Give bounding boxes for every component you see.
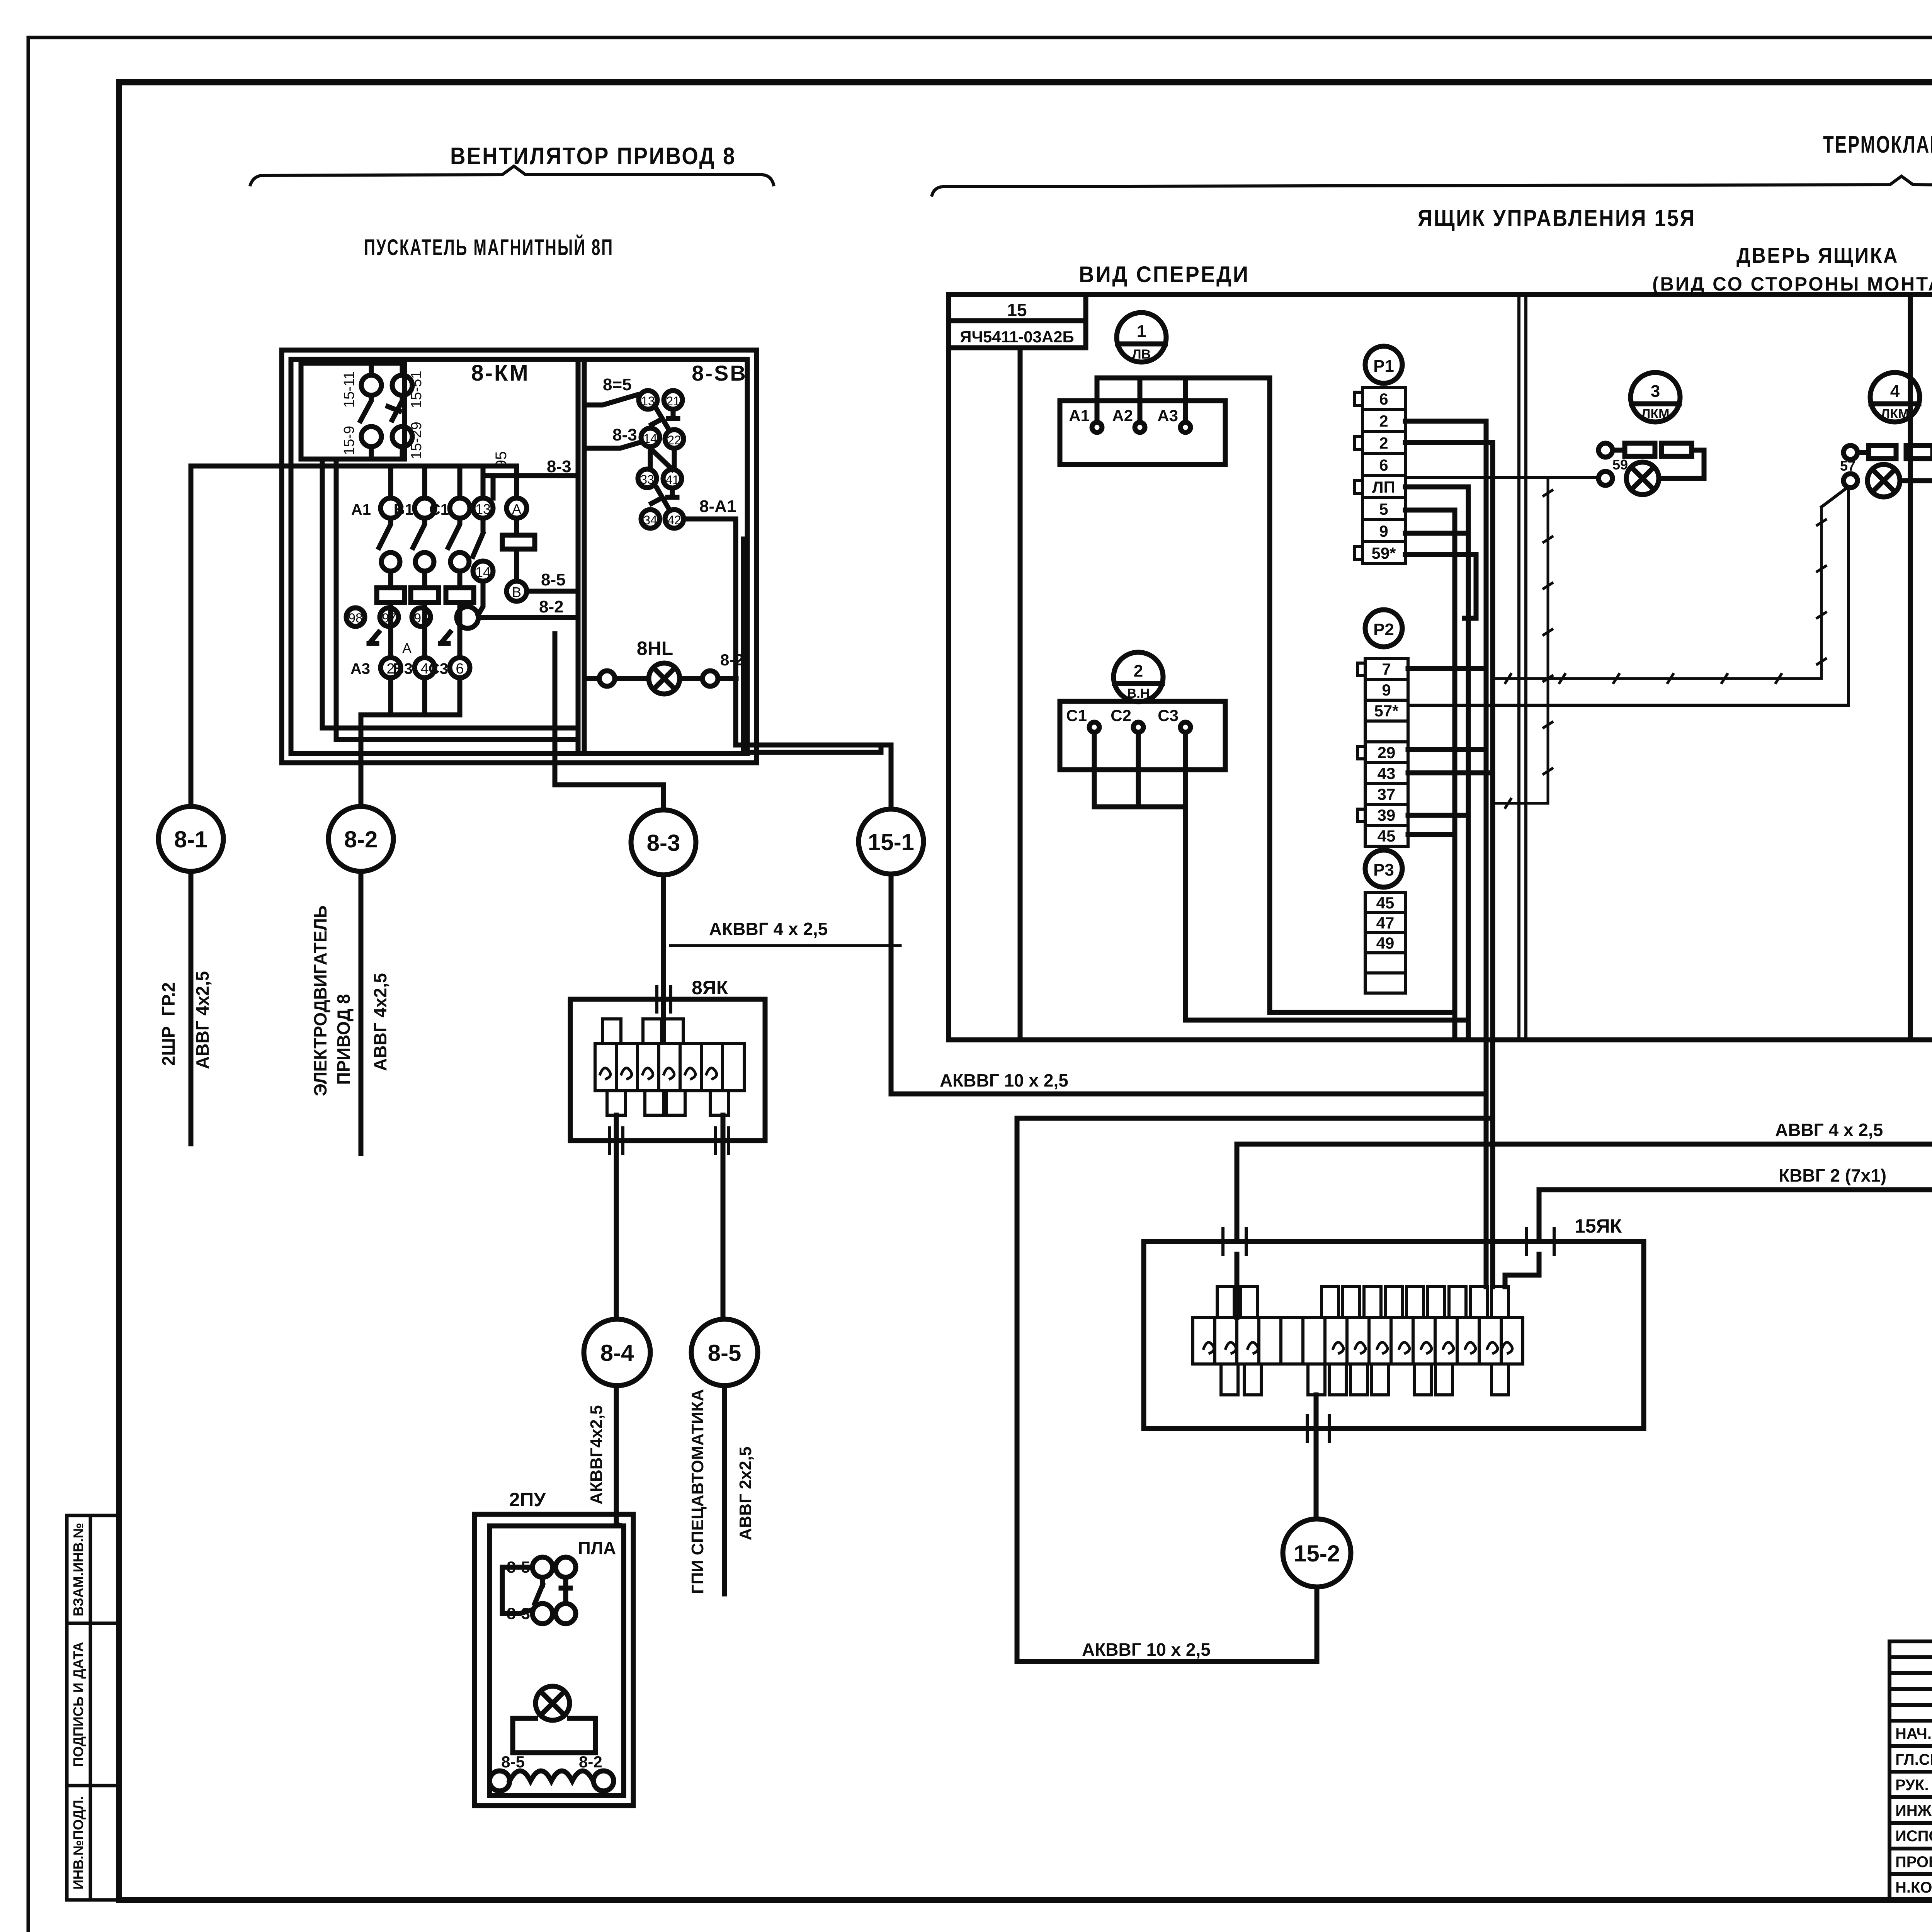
- svg-text:2: 2: [1379, 434, 1388, 452]
- wire 8-A1: [684, 519, 881, 752]
- svg-text:39: 39: [1378, 806, 1396, 824]
- svg-text:ЛП: ЛП: [1372, 478, 1395, 496]
- svg-text:(ВИД СО СТОРОНЫ МОНТАЖА): (ВИД СО СТОРОНЫ МОНТАЖА): [1652, 273, 1932, 295]
- aux small circles 98 97 95: [346, 608, 365, 626]
- terminal strip P3: [1365, 850, 1402, 887]
- door lamp 4/LKM symbol: [1870, 372, 1920, 422]
- svg-text:22: 22: [667, 433, 681, 447]
- wires below nodes 8-4 8-5: [616, 1386, 724, 1594]
- svg-text:49: 49: [1376, 934, 1395, 952]
- svg-text:2: 2: [1379, 412, 1388, 430]
- svg-text:ИНЖ.: ИНЖ.: [1895, 1802, 1932, 1819]
- svg-text:33: 33: [640, 473, 654, 486]
- junction circle and 8-2 wire: [457, 607, 478, 628]
- svg-text:А1: А1: [351, 501, 371, 518]
- svg-text:КВВГ 2 (7х1): КВВГ 2 (7х1): [1779, 1165, 1886, 1185]
- svg-text:3: 3: [1651, 382, 1660, 401]
- small hooks: [369, 632, 450, 643]
- node 15-2: [1283, 1519, 1351, 1587]
- svg-text:ПЛА: ПЛА: [578, 1538, 616, 1558]
- demount wire bottom run: [1493, 799, 1546, 808]
- wire 8-3 riser: [555, 634, 663, 999]
- lamp 4 assembly: [1844, 446, 1857, 459]
- svg-text:43: 43: [1378, 764, 1396, 782]
- coil 8-KM: [502, 535, 535, 549]
- svg-text:8-5: 8-5: [541, 570, 566, 589]
- entry wires into 15YaK: [1237, 1094, 1539, 1318]
- svg-text:АКВВГ 10 х 2,5: АКВВГ 10 х 2,5: [940, 1070, 1068, 1090]
- exit wire to 15-2: [1017, 1395, 1317, 1662]
- svg-text:15-2: 15-2: [1294, 1541, 1340, 1566]
- svg-text:13: 13: [641, 394, 655, 408]
- divider 8-KM / 8-SB: [576, 359, 581, 753]
- cable entry marks bottom: [1307, 1416, 1329, 1441]
- svg-text:ВИД СПЕРЕДИ: ВИД СПЕРЕДИ: [1079, 262, 1250, 287]
- wires from C-block: [1094, 732, 1468, 1020]
- plain wire P2 to lamp4: [1408, 488, 1849, 705]
- wire 8-5 from coil: [527, 589, 578, 594]
- wire bundle risers: [1455, 487, 1468, 1038]
- svg-text:А2: А2: [1112, 406, 1133, 425]
- svg-text:Н.КОНТР.: Н.КОНТР.: [1895, 1879, 1932, 1896]
- svg-text:9: 9: [1382, 681, 1391, 699]
- svg-text:15-1: 15-1: [868, 829, 914, 855]
- entry marks: [610, 986, 729, 1153]
- magnetic starter 8P outer box: [282, 350, 757, 763]
- aux contact 15-11/15-9: [361, 375, 381, 395]
- svg-text:АВВГ 4х2,5: АВВГ 4х2,5: [192, 971, 213, 1069]
- svg-text:45: 45: [1378, 827, 1396, 845]
- door right edge: [1908, 294, 1913, 1040]
- svg-text:ЯЧ5411-03А2Б: ЯЧ5411-03А2Б: [960, 328, 1074, 346]
- svg-text:ЛВ: ЛВ: [1132, 347, 1151, 362]
- thermal relay elements: [377, 588, 405, 602]
- svg-text:С3: С3: [429, 660, 448, 677]
- lamp 3 assembly: [1599, 443, 1612, 457]
- svg-text:8-3: 8-3: [647, 830, 680, 856]
- svg-text:4: 4: [1890, 382, 1900, 401]
- door divider: [1517, 294, 1520, 1040]
- terminal block C1 C2 C3: [1060, 701, 1225, 770]
- svg-text:А: А: [402, 640, 412, 656]
- svg-text:АВВГ 2х2,5: АВВГ 2х2,5: [736, 1447, 755, 1541]
- contactor pole B1: [415, 498, 435, 518]
- wire 8-5 into SB: [584, 395, 637, 405]
- svg-text:8-3: 8-3: [612, 425, 637, 444]
- svg-text:8-2: 8-2: [344, 827, 378, 852]
- squiggle terminal numbers: [1204, 1342, 1512, 1353]
- cable KVVG 2(7x1) run: [1539, 649, 1932, 1242]
- terminal box 8YaK: [570, 999, 765, 1141]
- 2PU button contacts: [532, 1557, 553, 1577]
- svg-text:А1: А1: [1069, 406, 1090, 425]
- svg-text:ПРОВЕР.: ПРОВЕР.: [1895, 1854, 1932, 1871]
- svg-text:АКВВГ4х2,5: АКВВГ4х2,5: [587, 1405, 606, 1504]
- svg-text:15: 15: [1007, 300, 1027, 320]
- svg-text:ЯЩИК УПРАВЛЕНИЯ 15Я: ЯЩИК УПРАВЛЕНИЯ 15Я: [1418, 205, 1696, 231]
- svg-text:Р1: Р1: [1373, 357, 1394, 376]
- svg-text:6: 6: [1379, 390, 1388, 408]
- svg-text:2: 2: [1134, 662, 1143, 680]
- svg-text:ИСПОЛН.: ИСПОЛН.: [1895, 1828, 1932, 1845]
- svg-text:8НL: 8НL: [637, 638, 673, 659]
- svg-text:С1: С1: [429, 501, 449, 518]
- door lamp 3/LKM symbol: [1631, 372, 1680, 422]
- svg-text:37: 37: [1378, 785, 1396, 803]
- button 8-SB contacts 13/14 21/22: [639, 391, 657, 409]
- aux contact block of 8-KM: [301, 363, 405, 459]
- svg-text:ИНВ.№ПОДЛ.: ИНВ.№ПОДЛ.: [70, 1796, 86, 1889]
- demount wire mid run: [1493, 674, 1821, 683]
- terminal box 15YaK loop: [1144, 1242, 1644, 1429]
- svg-text:15-9: 15-9: [341, 426, 357, 455]
- aux contact 15-51/15-29: [392, 375, 412, 395]
- svg-text:АКВВГ 4 х 2,5: АКВВГ 4 х 2,5: [709, 919, 828, 939]
- svg-text:С2: С2: [1111, 706, 1131, 724]
- svg-text:ПРИВОД 8: ПРИВОД 8: [333, 994, 354, 1085]
- node 8-4: [584, 1319, 650, 1386]
- svg-text:2ШР ГР.2: 2ШР ГР.2: [158, 982, 179, 1066]
- staff table: [1889, 1641, 1932, 1900]
- svg-text:95: 95: [493, 451, 510, 469]
- svg-text:8ЯК: 8ЯК: [692, 977, 728, 998]
- wire 8-3 into SB: [584, 442, 640, 448]
- P2 right stubs: [1408, 668, 1493, 835]
- svg-text:В3: В3: [393, 660, 413, 677]
- svg-text:8-1: 8-1: [174, 827, 208, 852]
- terminal strip P2: [1365, 610, 1402, 647]
- svg-text:98: 98: [348, 611, 363, 626]
- lamp symbol 2/V.N: [1114, 652, 1163, 702]
- type label box 15 / YaCh5411-03A2B: [949, 294, 1086, 321]
- svg-text:47: 47: [1376, 914, 1395, 932]
- return wires in 8-KM bottom left: [322, 459, 578, 740]
- svg-text:14: 14: [643, 432, 657, 446]
- svg-text:13: 13: [475, 501, 491, 517]
- svg-text:ГЛ.СПЕЦ: ГЛ.СПЕЦ: [1895, 1751, 1932, 1768]
- svg-text:15-29: 15-29: [408, 422, 425, 459]
- svg-text:59*: 59*: [1371, 544, 1396, 562]
- exits to 8-4 and 8-5: [616, 1115, 723, 1319]
- svg-text:ЛКМ: ЛКМ: [1881, 406, 1909, 421]
- svg-text:А3: А3: [350, 660, 370, 677]
- svg-text:Р2: Р2: [1373, 620, 1394, 639]
- svg-text:АВВГ 4х2,5: АВВГ 4х2,5: [370, 973, 390, 1071]
- svg-text:НАЧ.ОТД: НАЧ.ОТД: [1895, 1725, 1932, 1742]
- svg-text:ГПИ СПЕЦАВТОМАТИКА: ГПИ СПЕЦАВТОМАТИКА: [688, 1389, 707, 1594]
- svg-text:ПОДПИСЬ И ДАТА: ПОДПИСЬ И ДАТА: [70, 1642, 86, 1767]
- 2PU coil scallops: [510, 1771, 593, 1781]
- svg-text:7: 7: [1382, 660, 1391, 678]
- left marginal strip: [67, 1515, 120, 1900]
- svg-text:8-А1: 8-А1: [699, 497, 736, 516]
- svg-text:5: 5: [1379, 500, 1388, 518]
- wire 15-1 to box (AKVVG 10x2.5): [891, 1092, 1486, 1097]
- svg-text:6: 6: [456, 661, 464, 677]
- svg-text:С3: С3: [1158, 706, 1179, 724]
- svg-text:Р3: Р3: [1373, 861, 1394, 879]
- svg-text:ВЕНТИЛЯТОР ПРИВОД 8: ВЕНТИЛЯТОР ПРИВОД 8: [450, 143, 736, 170]
- coil terminal A: [507, 498, 527, 518]
- svg-text:4: 4: [420, 661, 429, 677]
- svg-text:8-5: 8-5: [708, 1340, 742, 1366]
- wire 8-1 riser: [189, 466, 194, 1144]
- node 8-3: [631, 810, 696, 875]
- svg-text:45: 45: [1376, 894, 1395, 912]
- inner left wire from label box: [1018, 348, 1023, 1040]
- svg-text:6: 6: [1379, 456, 1388, 474]
- node 15-1: [859, 809, 923, 874]
- svg-text:8-SB: 8-SB: [692, 361, 747, 385]
- button 8-SB contacts 33/34 41/42: [638, 469, 656, 488]
- svg-text:ЛКМ: ЛКМ: [1641, 406, 1670, 421]
- cable entry marks top: [1223, 1229, 1554, 1254]
- P1 right stubs: [1405, 421, 1493, 533]
- svg-text:ЭЛЕКТРОДВИГАТЕЛЬ: ЭЛЕКТРОДВИГАТЕЛЬ: [310, 905, 330, 1096]
- svg-text:АКВВГ 10 х 2,5: АКВВГ 10 х 2,5: [1082, 1639, 1211, 1660]
- svg-text:41: 41: [665, 473, 679, 487]
- svg-text:97: 97: [382, 611, 396, 626]
- svg-text:59: 59: [1612, 457, 1628, 473]
- svg-text:15-51: 15-51: [408, 371, 425, 408]
- svg-text:42: 42: [667, 513, 681, 527]
- box 2PU: [474, 1514, 633, 1806]
- svg-text:ДВЕРЬ ЯЩИКА: ДВЕРЬ ЯЩИКА: [1736, 243, 1899, 267]
- svg-text:8-2: 8-2: [539, 597, 564, 616]
- svg-text:ТЕРМОКЛАПАН ПРИВОД 15: ТЕРМОКЛАПАН ПРИВОД 15: [1823, 131, 1932, 158]
- wires from A-block: [1097, 378, 1455, 1012]
- contactor pole A1: [381, 498, 401, 518]
- demount wire lamp3 drop: [1405, 476, 1599, 479]
- svg-text:14: 14: [475, 564, 491, 580]
- svg-text:В.Н: В.Н: [1127, 686, 1150, 701]
- 2PU lamp: [536, 1686, 570, 1720]
- cable AVVG 4x2.5 run: [1237, 442, 1932, 1242]
- circle B coil bottom: [507, 581, 527, 601]
- feed wire from 8-1 riser into box: [191, 464, 517, 469]
- svg-text:15ЯК: 15ЯК: [1575, 1215, 1622, 1237]
- svg-text:А: А: [512, 501, 521, 517]
- wires in 2PU: [502, 1567, 532, 1614]
- brace under header 8: [250, 166, 774, 185]
- svg-text:57*: 57*: [1374, 702, 1399, 720]
- coil branch circle 13: [473, 498, 493, 518]
- svg-text:8-2: 8-2: [579, 1753, 602, 1771]
- SB internal link: [650, 447, 674, 469]
- strip 8YaK: [595, 1019, 744, 1115]
- circle 14: [473, 561, 493, 581]
- svg-text:АВВГ 4 х 2,5: АВВГ 4 х 2,5: [1775, 1120, 1883, 1140]
- svg-text:ВЗАМ.ИНВ.№: ВЗАМ.ИНВ.№: [70, 1523, 86, 1616]
- svg-text:8-2: 8-2: [720, 651, 744, 669]
- node 8-1: [158, 806, 223, 871]
- svg-text:8-4: 8-4: [600, 1340, 634, 1366]
- svg-text:РУК. ГР: РУК. ГР: [1895, 1777, 1932, 1794]
- strip 15YaK: [1193, 1287, 1523, 1395]
- svg-text:21: 21: [666, 394, 680, 408]
- svg-text:2ПУ: 2ПУ: [509, 1489, 546, 1510]
- wire 14 down join: [478, 581, 483, 614]
- svg-text:С1: С1: [1066, 706, 1087, 724]
- svg-text:ПУСКАТЕЛЬ МАГНИТНЫЙ 8П: ПУСКАТЕЛЬ МАГНИТНЫЙ 8П: [364, 235, 614, 260]
- svg-text:В1: В1: [394, 501, 413, 518]
- wire 15-1 riser: [736, 745, 891, 1094]
- lamp symbol 1/LV: [1117, 313, 1166, 362]
- svg-text:95: 95: [414, 611, 429, 626]
- wire 8-2 riser: [359, 763, 364, 1153]
- terminal block A1 A2 A3: [1060, 401, 1225, 464]
- contactor pole C1: [450, 498, 470, 518]
- svg-text:1: 1: [1137, 322, 1146, 341]
- collector wire to 8-2: [361, 678, 460, 806]
- svg-text:9: 9: [1379, 522, 1388, 540]
- svg-text:57: 57: [1840, 458, 1855, 474]
- wire box exit H2: [1017, 1118, 1493, 1662]
- svg-text:15-11: 15-11: [341, 371, 357, 408]
- control box outer: [949, 294, 1932, 1040]
- entry wire from 8-3: [661, 999, 666, 1019]
- svg-text:8-5: 8-5: [501, 1753, 525, 1771]
- svg-text:29: 29: [1378, 743, 1396, 762]
- terminal strip P1: [1365, 346, 1402, 383]
- svg-text:А3: А3: [1157, 406, 1178, 425]
- svg-text:8=5: 8=5: [603, 375, 632, 394]
- brace under header 15: [932, 176, 1932, 199]
- svg-text:34: 34: [643, 513, 657, 527]
- node 8-5: [691, 1319, 758, 1386]
- node 8-2: [328, 806, 393, 871]
- demount wire lamp4 riser: [1817, 507, 1826, 679]
- bottom terminals A3 B3 C3: [381, 658, 401, 678]
- svg-text:В: В: [512, 584, 521, 600]
- svg-text:8-КМ: 8-КМ: [471, 361, 529, 386]
